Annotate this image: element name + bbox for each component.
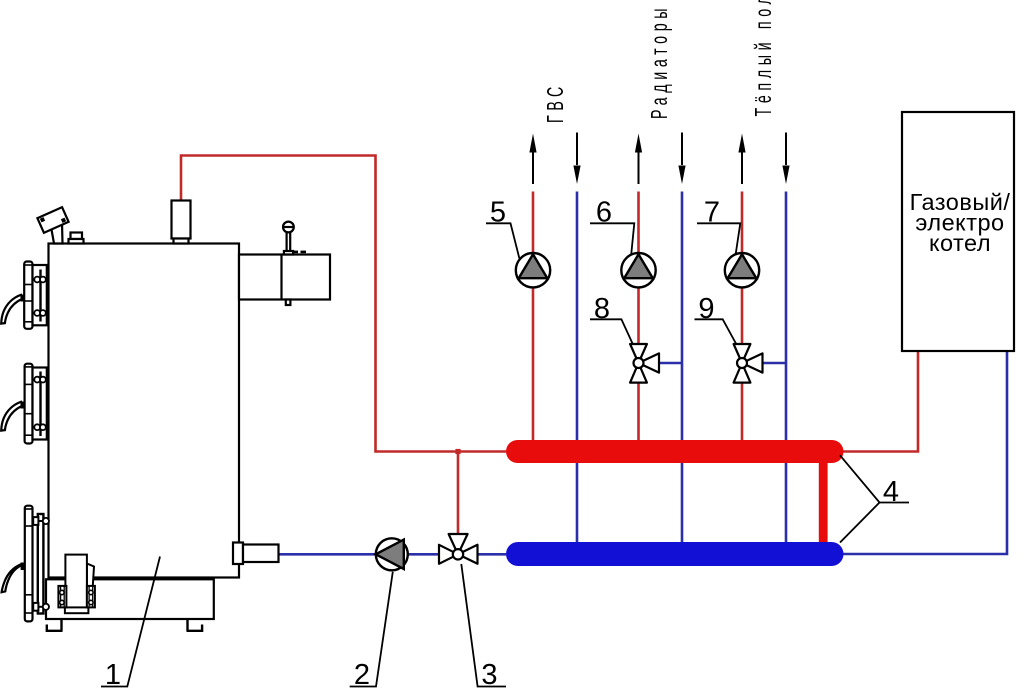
svg-text:9: 9 <box>698 293 714 325</box>
svg-text:6: 6 <box>596 197 612 229</box>
svg-text:Тёплый пол: Тёплый пол <box>752 0 777 117</box>
svg-text:Радиаторы: Радиаторы <box>648 4 673 119</box>
svg-text:котел: котел <box>929 230 991 256</box>
svg-text:7: 7 <box>704 197 720 229</box>
svg-text:4: 4 <box>883 476 899 508</box>
svg-text:3: 3 <box>481 659 497 691</box>
svg-text:5: 5 <box>490 197 506 229</box>
svg-text:2: 2 <box>354 659 370 691</box>
svg-text:ГВС: ГВС <box>544 82 569 123</box>
svg-text:8: 8 <box>594 293 610 325</box>
svg-text:1: 1 <box>105 659 121 691</box>
